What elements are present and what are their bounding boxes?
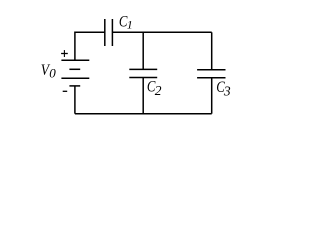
battery V0 plate long top xyxy=(61,59,89,61)
battery V0 plate short bottom xyxy=(69,85,80,87)
capacitor C2 top plate xyxy=(129,68,157,70)
minus sign polarity mark xyxy=(63,90,67,92)
capacitor C1 left plate xyxy=(104,19,106,46)
svg-text:3: 3 xyxy=(223,84,231,99)
capacitor C1 right plate xyxy=(111,19,113,46)
plus sign polarity mark xyxy=(61,53,68,55)
wire battery-bottom to bottom rail xyxy=(74,86,76,114)
battery V0 plate long lower xyxy=(61,77,89,79)
wire top rail right segment xyxy=(112,31,211,33)
svg-text:2: 2 xyxy=(155,83,162,98)
svg-text:0: 0 xyxy=(49,66,56,81)
svg-text:1: 1 xyxy=(127,17,133,31)
capacitor C2 bottom plate xyxy=(129,77,157,79)
wire C2 bottom to bottom rail xyxy=(142,78,144,114)
wire right drop to C3 xyxy=(211,32,213,70)
battery V0 plate short xyxy=(69,68,80,70)
wire C3 bottom to bottom rail xyxy=(211,78,213,114)
wire battery-top to top rail with corner xyxy=(75,32,105,60)
wire bottom rail xyxy=(75,113,212,115)
wire junction drop to C2 xyxy=(142,32,144,69)
capacitor C3 top plate xyxy=(197,69,225,71)
capacitor C3 bottom plate xyxy=(197,77,225,79)
